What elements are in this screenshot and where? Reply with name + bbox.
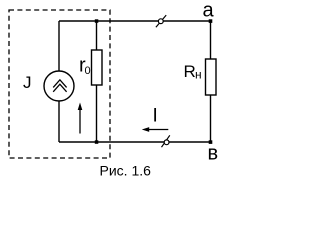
current direction arrow inside source	[78, 103, 83, 134]
svg-text:J: J	[23, 73, 32, 92]
wire load top lead	[210, 21, 212, 59]
svg-text:Рис. 1.6: Рис. 1.6	[100, 163, 152, 179]
terminal mark bottom	[162, 135, 170, 147]
resistor Rн	[206, 59, 217, 95]
wire source bottom lead	[58, 101, 60, 142]
svg-text:в: в	[208, 143, 219, 165]
svg-text:I: I	[153, 106, 158, 127]
node a dot	[209, 19, 213, 23]
junction r0-top	[95, 19, 99, 23]
label node в	[208, 143, 219, 165]
terminal mark top	[156, 15, 166, 27]
svg-text:н: н	[195, 68, 202, 82]
svg-text:0: 0	[85, 65, 91, 77]
wire bottom (node в net)	[59, 141, 211, 143]
junction r0-bottom	[95, 140, 99, 144]
source enclosure dashed box	[9, 10, 110, 158]
wire load bottom lead	[210, 95, 212, 142]
current I arrow	[142, 127, 169, 132]
svg-text:R: R	[184, 62, 196, 81]
wire top (node a net)	[59, 20, 211, 22]
wire r0 top lead	[96, 21, 98, 50]
svg-text:а: а	[203, 0, 215, 22]
label Rн	[184, 62, 202, 82]
label I	[153, 106, 158, 127]
current source J symbol	[44, 71, 74, 101]
label r0	[79, 55, 91, 78]
label node a	[203, 0, 215, 22]
caption Рис. 1.6	[100, 163, 152, 179]
label J	[23, 73, 32, 92]
wire r0 bottom lead	[96, 85, 98, 142]
resistor r0	[92, 50, 103, 85]
node в dot	[209, 140, 213, 144]
wire source top lead	[58, 21, 60, 71]
